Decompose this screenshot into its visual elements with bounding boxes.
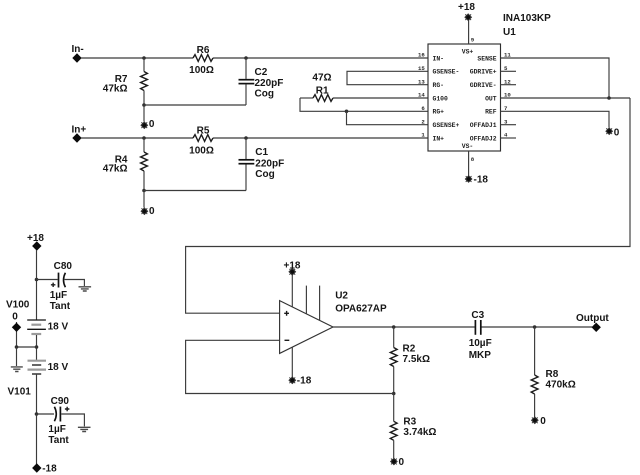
node 0 (R7 ground): [141, 119, 155, 130]
wire 0 branch to ground: [16, 347, 18, 366]
svg-text:100Ω: 100Ω: [189, 145, 214, 156]
junction SENSE/OUT: [607, 96, 611, 100]
battery V100: [6, 299, 69, 334]
svg-text:2: 2: [421, 118, 425, 125]
wire R4 ground lead: [143, 191, 145, 208]
wire V101 to C90 tap: [36, 375, 38, 414]
wire +18 rail to battery V100: [36, 250, 38, 320]
svg-text:U2: U2: [335, 290, 348, 301]
svg-text:In-: In-: [72, 44, 84, 55]
wire C80 to ground: [65, 280, 85, 287]
wire VS+ pin 9: [468, 19, 470, 44]
ground (C80): [79, 287, 92, 291]
wire C80 left lead: [37, 279, 58, 281]
svg-text:U1: U1: [503, 27, 516, 38]
resistor R8: [531, 327, 576, 417]
node 0 (supply reference): [12, 311, 21, 332]
svg-text:470kΩ: 470kΩ: [546, 380, 576, 391]
svg-text:OFFADJ1: OFFADJ1: [470, 122, 497, 129]
svg-text:IN-: IN-: [433, 55, 445, 62]
svg-text:0: 0: [614, 127, 620, 138]
capacitor C90: [48, 396, 69, 446]
svg-text:Cog: Cog: [255, 89, 274, 100]
op-amp U1 body (INA103KP box): [428, 13, 551, 151]
ground (C90): [78, 427, 91, 431]
svg-text:RG-: RG-: [433, 82, 445, 89]
svg-text:C2: C2: [255, 67, 268, 78]
svg-text:10µF: 10µF: [469, 338, 492, 349]
svg-text:14: 14: [418, 92, 425, 99]
U2 trim stub 2: [319, 286, 321, 321]
svg-text:220pF: 220pF: [255, 78, 284, 89]
svg-text:7.5kΩ: 7.5kΩ: [403, 354, 430, 365]
junction R7 bottom: [142, 103, 146, 107]
svg-text:C1: C1: [255, 147, 268, 158]
capacitor C80: [50, 261, 73, 312]
svg-text:47kΩ: 47kΩ: [103, 84, 128, 95]
ground (supply midpoint): [11, 367, 23, 372]
svg-text:-18: -18: [42, 464, 57, 475]
wire midpoint to 0 node branch: [17, 322, 37, 347]
wire feedback upper (OUT to op-amp +): [186, 98, 630, 313]
svg-text:Cog: Cog: [255, 169, 274, 180]
wire C90 left lead: [37, 413, 55, 415]
wire R6 to chip pin 16: [213, 57, 428, 59]
svg-text:-18: -18: [297, 376, 312, 387]
wire GSENSE- loop (pin15 to pin13): [347, 71, 428, 84]
wire R4/C1 bottom link: [144, 190, 246, 192]
svg-text:GSENSE-: GSENSE-: [433, 69, 460, 76]
svg-text:220pF: 220pF: [255, 159, 284, 170]
wire GSENSE+ leg (junction down to pin 2): [347, 111, 429, 124]
svg-text:9: 9: [471, 36, 475, 43]
svg-text:C90: C90: [51, 396, 70, 407]
capacitor C2: [239, 58, 284, 105]
junction at C2 top: [244, 56, 248, 60]
junction R4 bottom: [142, 189, 146, 193]
svg-text:OPA627AP: OPA627AP: [335, 304, 387, 315]
svg-text:+18: +18: [284, 260, 301, 271]
wire REF to ground: [501, 111, 610, 127]
node In-: [72, 44, 84, 63]
resistor R2: [390, 327, 430, 394]
svg-text:VS-: VS-: [462, 143, 474, 150]
node 0 (R8 ground): [532, 416, 547, 427]
junction R2 top: [392, 325, 396, 329]
svg-text:V101: V101: [8, 387, 32, 398]
wire U2 output to C3: [333, 326, 475, 328]
svg-text:In+: In+: [72, 125, 87, 136]
wire SENSE to OUT junction: [501, 58, 610, 98]
svg-text:0: 0: [12, 311, 18, 322]
svg-text:3.74kΩ: 3.74kΩ: [403, 427, 436, 438]
node +18 (U2 supply): [284, 260, 301, 275]
svg-text:GDRIVE+: GDRIVE+: [470, 69, 497, 76]
svg-text:Output: Output: [576, 313, 609, 324]
wire In- to R6: [81, 57, 193, 59]
svg-text:GSENSE+: GSENSE+: [433, 122, 460, 129]
node -18 (U2 supply): [289, 376, 312, 387]
junction C80 tap: [35, 278, 39, 282]
svg-text:0: 0: [540, 416, 546, 427]
svg-text:47Ω: 47Ω: [312, 72, 331, 83]
svg-text:+18: +18: [458, 2, 475, 13]
node 0 (R3 ground): [391, 457, 405, 468]
svg-text:0: 0: [149, 119, 155, 130]
junction R2/R3 feedback: [392, 392, 396, 396]
svg-text:RG+: RG+: [433, 109, 445, 116]
svg-text:Tant: Tant: [50, 301, 71, 312]
svg-text:R1: R1: [316, 86, 329, 97]
wire U2 V- supply: [291, 347, 293, 378]
svg-text:1µF: 1µF: [50, 290, 67, 301]
svg-text:OFFADJ2: OFFADJ2: [470, 135, 497, 142]
wire VS- pin 8: [468, 151, 470, 177]
wire C90 to ground: [61, 414, 84, 426]
svg-text:SENSE: SENSE: [477, 55, 496, 62]
resistor R1: [300, 72, 428, 101]
svg-text:0: 0: [149, 206, 155, 217]
svg-text:R6: R6: [197, 45, 210, 56]
wire feedback lower (R2/R3 to op-amp -): [186, 340, 394, 393]
resistor R4: [103, 138, 148, 191]
svg-text:100Ω: 100Ω: [189, 65, 214, 76]
svg-text:C80: C80: [54, 261, 73, 272]
resistor R3: [390, 394, 436, 459]
wire GDRIVE- stub: [501, 84, 517, 86]
wire U2 V+ supply: [291, 274, 293, 307]
node -18 (U1 supply): [465, 175, 488, 186]
wire V100 to midpoint: [36, 335, 38, 360]
svg-text:-18: -18: [474, 175, 489, 186]
svg-text:G100: G100: [433, 95, 449, 102]
wire OUT to feedback corner: [501, 97, 631, 99]
op-amp U2 triangle: [280, 290, 387, 353]
wire R5 to chip pin 1: [213, 137, 428, 139]
svg-text:18 V: 18 V: [48, 322, 69, 333]
svg-text:GDRIVE-: GDRIVE-: [470, 82, 497, 89]
svg-text:INA103KP: INA103KP: [503, 13, 551, 24]
resistor R6: [189, 45, 214, 76]
junction R8 top: [533, 325, 537, 329]
wire R1 left leg down to RG+ row: [300, 98, 428, 111]
svg-text:REF: REF: [485, 109, 497, 116]
U2 trim stub 1: [305, 286, 307, 314]
svg-text:13: 13: [418, 78, 425, 85]
resistor R7: [103, 58, 148, 105]
svg-text:16: 16: [418, 52, 425, 59]
node In+: [72, 125, 87, 143]
svg-text:6: 6: [421, 105, 425, 112]
node 0 (R4 ground): [141, 206, 155, 217]
wire GDRIVE+ stub: [501, 70, 517, 72]
battery V101: [8, 361, 69, 398]
wire R7 ground lead: [143, 105, 145, 122]
svg-text:Tant: Tant: [48, 435, 69, 446]
svg-text:R5: R5: [197, 125, 210, 136]
wire C3 to Output node: [482, 326, 593, 328]
svg-text:18 V: 18 V: [48, 362, 69, 373]
op-amp - marker: [285, 339, 290, 341]
op-amp + marker: [284, 311, 289, 316]
resistor R5: [189, 125, 214, 156]
svg-text:47kΩ: 47kΩ: [103, 164, 128, 175]
wire In+ to R5: [81, 137, 193, 139]
junction on RG+ row: [345, 110, 349, 114]
svg-text:1: 1: [421, 132, 425, 139]
node 0 (REF ground): [606, 127, 620, 138]
node Output: [576, 313, 609, 332]
capacitor C1: [239, 138, 285, 191]
wire OFFADJ2 stub: [501, 137, 517, 139]
node +18 (rail): [27, 233, 44, 251]
svg-text:+18: +18: [27, 233, 44, 244]
svg-text:R2: R2: [403, 344, 416, 355]
junction C90 tap: [35, 412, 39, 416]
node -18 (rail): [32, 463, 57, 474]
svg-text:15: 15: [418, 65, 425, 72]
svg-text:0: 0: [399, 457, 405, 468]
junction at R4 top: [142, 136, 146, 140]
svg-text:8: 8: [471, 156, 475, 163]
svg-text:VS+: VS+: [462, 48, 474, 55]
junction at C1 top: [244, 136, 248, 140]
svg-text:R3: R3: [403, 417, 416, 428]
wire R7/C2 bottom link: [144, 104, 246, 106]
junction battery midpoint: [35, 345, 39, 349]
wire OFFADJ1 stub: [501, 124, 517, 126]
svg-text:MKP: MKP: [469, 350, 492, 361]
svg-text:IN+: IN+: [433, 135, 445, 142]
wire C90 tap to -18: [36, 414, 38, 464]
svg-text:V100: V100: [6, 299, 30, 310]
junction at R7 top: [142, 56, 146, 60]
junction 0 branch: [15, 345, 19, 349]
svg-text:C3: C3: [471, 310, 484, 321]
svg-text:OUT: OUT: [485, 95, 497, 102]
node +18 (U1 supply): [458, 2, 475, 21]
capacitor C3: [469, 310, 492, 361]
svg-text:1µF: 1µF: [48, 424, 65, 435]
